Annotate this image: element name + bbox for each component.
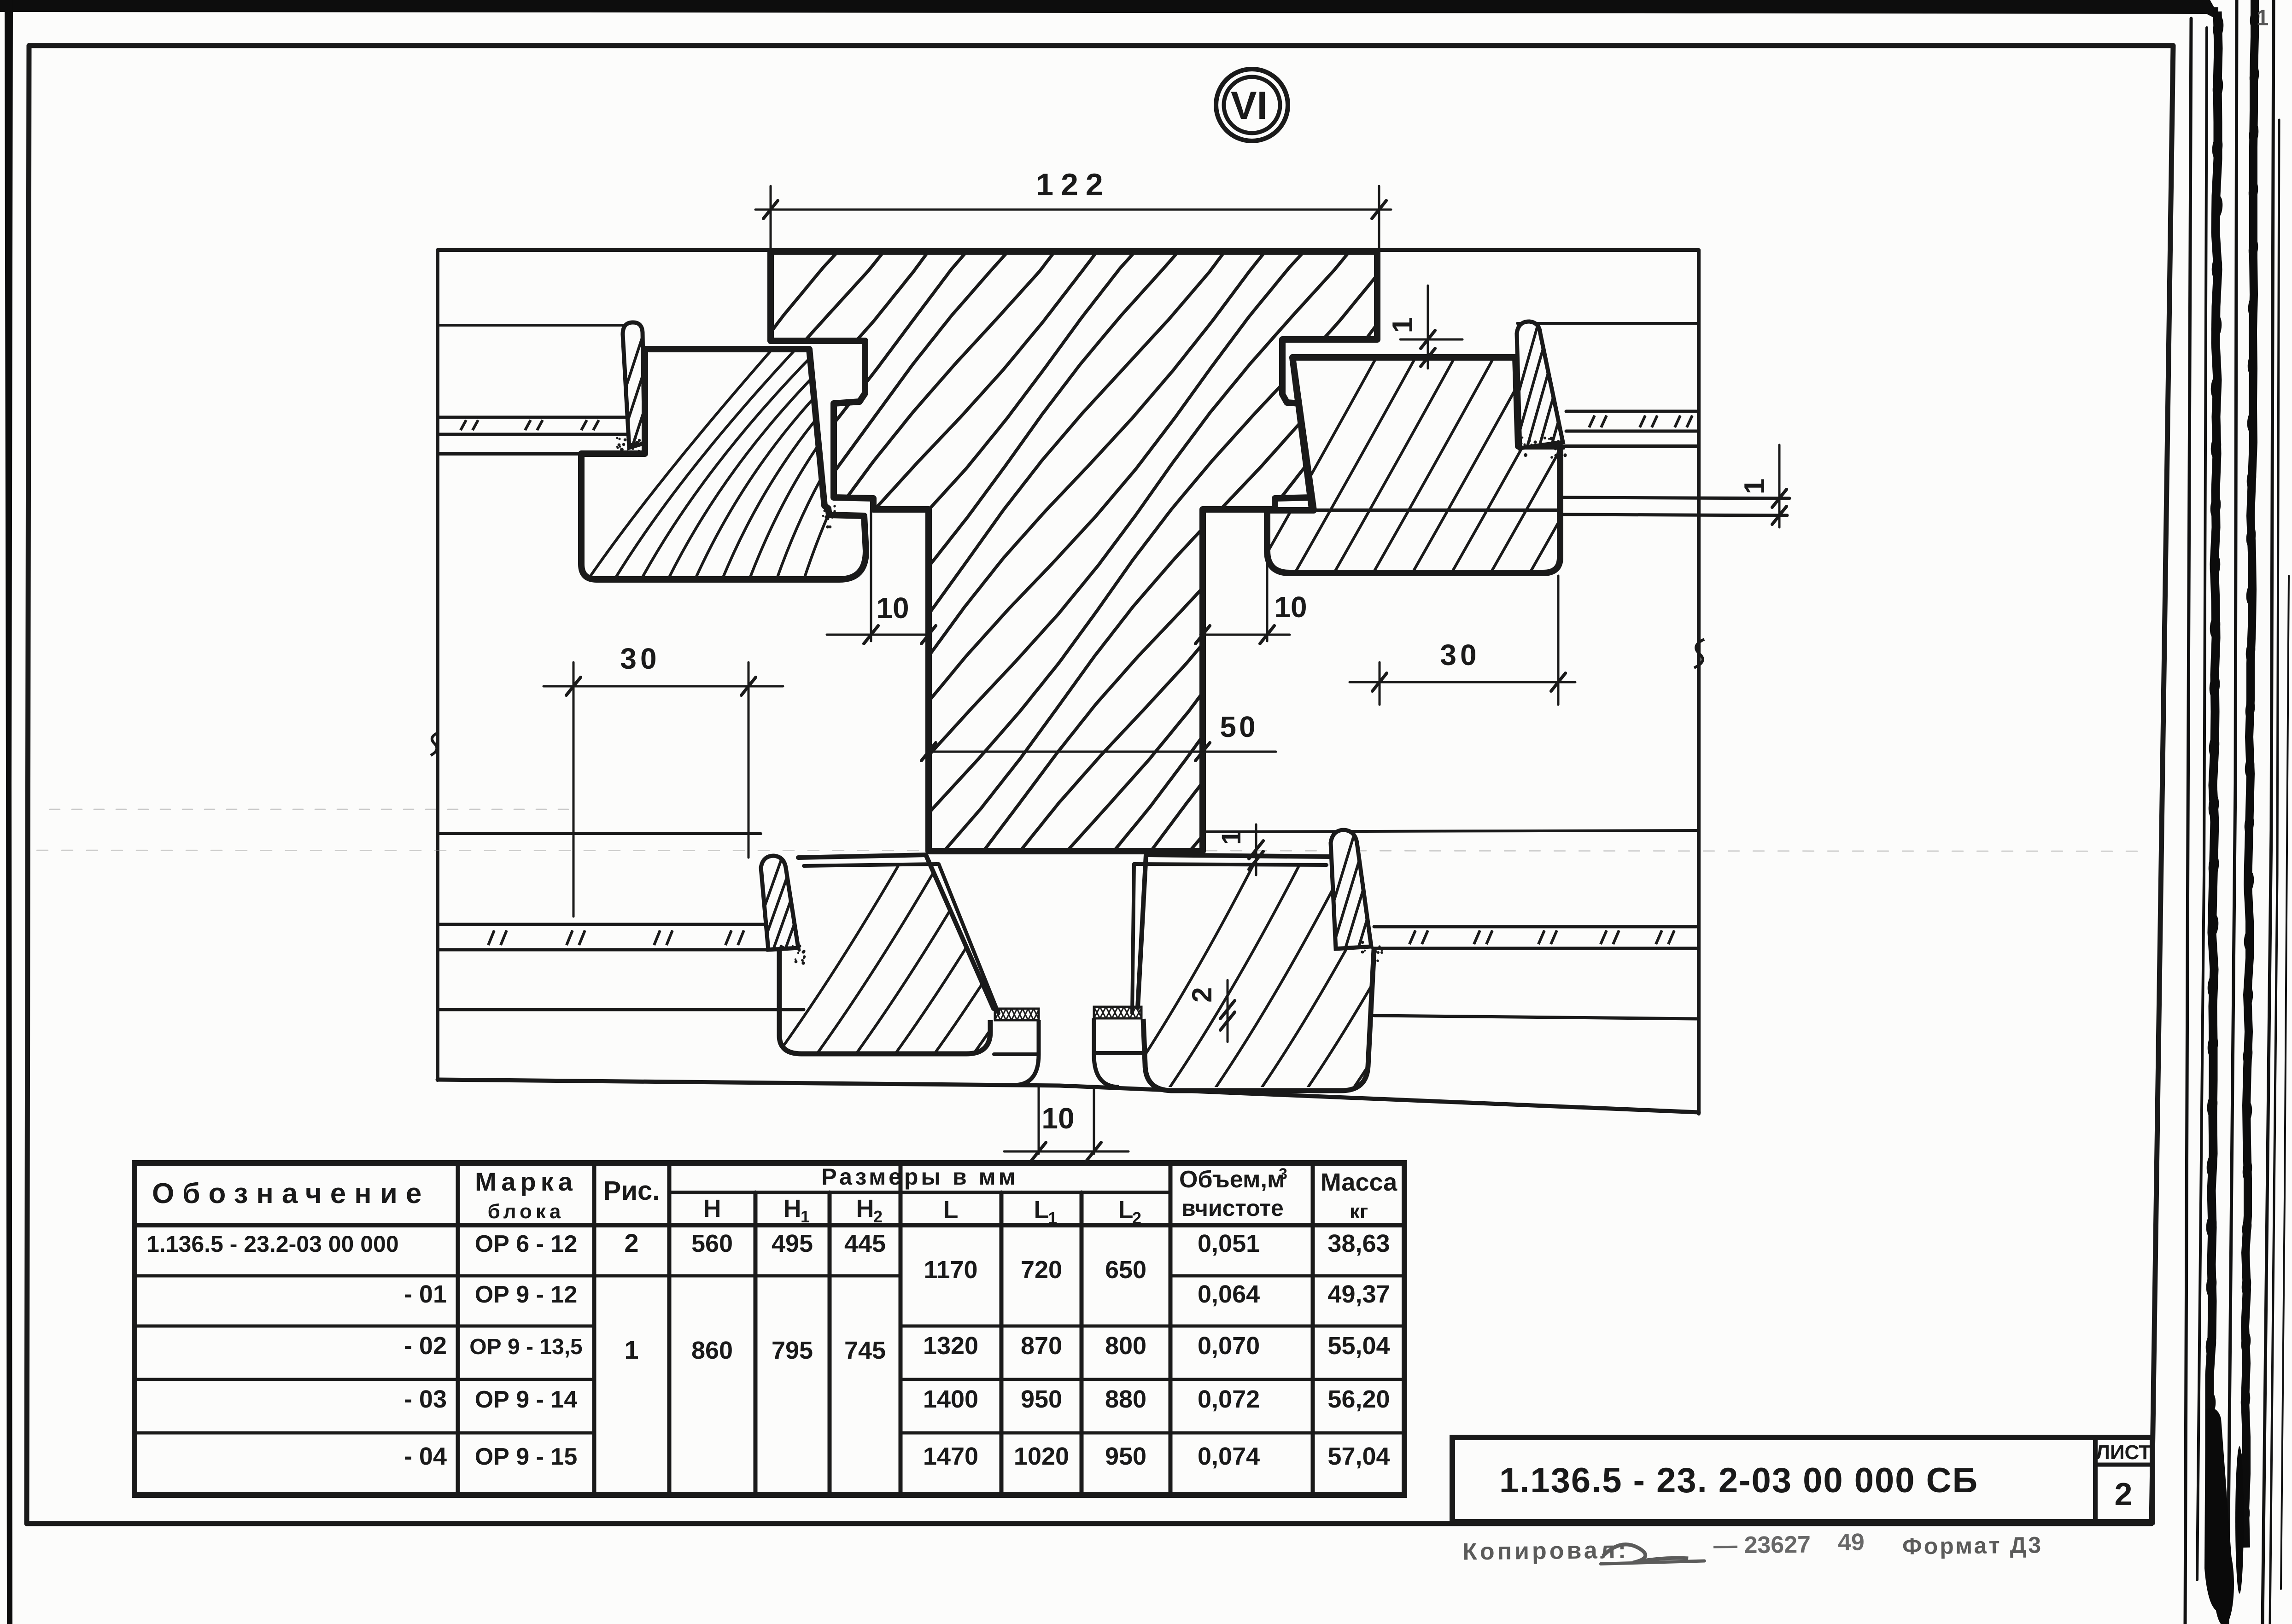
dimension 30 (left) (573, 662, 575, 917)
table column lines (456, 1163, 460, 1495)
putty dots upper-right (1549, 437, 1553, 440)
svg-text:1.136.5 - 23. 2-03 00 000 СБ: 1.136.5 - 23. 2-03 00 000 СБ (1499, 1461, 1978, 1500)
upper-right sash outline (1267, 357, 1560, 573)
dimension 10 (drainage slot) (1004, 1151, 1128, 1153)
drainage slot extension lines (1038, 1087, 1040, 1154)
dimension 1 (top gap right) (1427, 286, 1429, 368)
bottom box inner ledge right (1374, 1016, 1699, 1019)
svg-text:L: L (1118, 1196, 1134, 1224)
glazing rebate bottom line right (1564, 444, 1699, 448)
putty dots bottom-left bead (801, 961, 805, 964)
pocket seal strip right (crosshatch) (1094, 1007, 1142, 1018)
wall section boundary right (1697, 250, 1701, 1114)
svg-text:Рис.: Рис. (603, 1176, 660, 1206)
svg-text:Копировал:: Копировал: (1462, 1537, 1629, 1566)
svg-text:0,074: 0,074 (1198, 1443, 1260, 1470)
svg-text:30: 30 (1440, 638, 1480, 672)
svg-text:- 01: - 01 (404, 1280, 447, 1308)
bottom-right sash top edge double (1146, 855, 1331, 857)
faint scan line upper (50, 809, 571, 810)
svg-text:H: H (703, 1195, 721, 1222)
svg-text:1: 1 (1387, 317, 1419, 333)
table row lines (134, 1274, 900, 1278)
sash overlap edge line right (1270, 508, 1560, 512)
svg-text:10: 10 (1274, 590, 1307, 624)
svg-text:0,051: 0,051 (1198, 1230, 1260, 1257)
putty line under bead upper-right (1520, 447, 1564, 450)
svg-text:1: 1 (2257, 6, 2269, 30)
svg-text:Обозначение: Обозначение (152, 1178, 430, 1209)
svg-text:ЛИСТ: ЛИСТ (2096, 1441, 2151, 1464)
svg-text:1020: 1020 (1014, 1443, 1069, 1470)
bottom box rail top edge left (438, 832, 761, 835)
glazing bead bottom-left (761, 856, 798, 950)
glass pane upper-right (1566, 410, 1699, 413)
svg-text:кг: кг (1350, 1200, 1368, 1223)
wood grain hatch of central piece (304, 221, 1756, 903)
svg-text:1400: 1400 (923, 1385, 978, 1413)
svg-text:950: 950 (1105, 1443, 1146, 1470)
putty dots bottom-right bead (1379, 946, 1381, 948)
svg-text:0,072: 0,072 (1198, 1385, 1260, 1413)
svg-text:1: 1 (1048, 1209, 1057, 1227)
glazing rebate top line left (438, 324, 625, 327)
svg-text:50: 50 (1220, 710, 1258, 743)
glazing bead bottom-right (1331, 830, 1371, 949)
svg-text:880: 880 (1105, 1385, 1146, 1413)
svg-text:10: 10 (1041, 1102, 1074, 1135)
glazing bead hatch (603, 322, 712, 456)
svg-text:1170: 1170 (924, 1256, 977, 1284)
binding scan streaks right edge (2185, 0, 2289, 1624)
wall section boundary top (438, 248, 1699, 252)
dimension 50 (stem width) (929, 751, 1276, 753)
node VI detail label circle (1216, 69, 1288, 141)
svg-text:2: 2 (2115, 1476, 2133, 1512)
putty dots upper-left (624, 438, 627, 442)
binding bead chain thick left (2210, 12, 2218, 1485)
svg-text:- 02: - 02 (404, 1332, 447, 1360)
svg-text:720: 720 (1021, 1256, 1062, 1284)
svg-text:3: 3 (1279, 1165, 1287, 1183)
svg-text:650: 650 (1105, 1256, 1146, 1284)
table outer frame (134, 1163, 1404, 1495)
dimension 1 (right edge overlap) (1778, 445, 1781, 527)
svg-text:950: 950 (1021, 1385, 1062, 1413)
sash ledge lines to boundary right (1560, 497, 1789, 498)
svg-text:Объем,м: Объем,м (1179, 1166, 1285, 1193)
svg-text:- 04: - 04 (404, 1443, 447, 1470)
pocket seal strip left (crosshatch) (995, 1009, 1039, 1020)
svg-text:30: 30 (620, 642, 660, 675)
glazing rebate top line right (1517, 322, 1699, 325)
dimension 10 (right gap) (1266, 511, 1269, 641)
svg-text:870: 870 (1021, 1332, 1062, 1360)
svg-text:1: 1 (801, 1207, 810, 1226)
svg-text:L: L (943, 1196, 959, 1224)
binding bead chain thick right (2245, 0, 2255, 1548)
svg-text:495: 495 (772, 1230, 813, 1257)
svg-text:ОР 9 - 15: ОР 9 - 15 (475, 1443, 578, 1470)
glazing bead upper-right (1517, 321, 1563, 448)
binding dark blob bottom (2204, 1408, 2233, 1612)
title block frame (1452, 1437, 2152, 1522)
drainage slot walls (1013, 1020, 1039, 1085)
svg-text:Размеры в мм: Размеры в мм (821, 1164, 1018, 1190)
svg-text:860: 860 (691, 1337, 733, 1364)
svg-text:L: L (1034, 1196, 1049, 1224)
svg-text:2: 2 (873, 1207, 883, 1226)
svg-text:10: 10 (876, 591, 909, 625)
svg-text:ОР 9 - 13,5: ОР 9 - 13,5 (469, 1335, 582, 1359)
svg-text:56,20: 56,20 (1327, 1385, 1390, 1413)
bottom-right sash grain (1119, 866, 1483, 1094)
central mullion box piece outline (771, 251, 1377, 851)
bottom glass pane right (1374, 925, 1699, 929)
wall section boundary bottom (slanted scan) (438, 1080, 1699, 1112)
dimension 30 (right) (1379, 662, 1381, 705)
bottom-left sash body bottom (779, 950, 990, 1054)
svg-text:0,064: 0,064 (1198, 1280, 1260, 1308)
svg-text:122: 122 (1036, 167, 1110, 202)
bottom box rail top edge right (1202, 830, 1699, 832)
glazing rebate bottom line left (438, 452, 632, 456)
upper-left sash outline (581, 349, 866, 579)
svg-text:745: 745 (844, 1337, 886, 1364)
svg-text:ОР 9 - 12: ОР 9 - 12 (475, 1281, 578, 1308)
svg-text:VI: VI (1231, 84, 1268, 128)
svg-text:2: 2 (1132, 1209, 1141, 1227)
black scan edge left (5, 0, 13, 1624)
black scan edge top (0, 0, 2222, 22)
bottom pocket left wall double (926, 855, 994, 1009)
faint scan line lower (37, 850, 2137, 851)
svg-text:55,04: 55,04 (1327, 1332, 1390, 1360)
svg-text:вчистоте: вчистоте (1181, 1195, 1284, 1221)
svg-text:795: 795 (772, 1337, 813, 1364)
svg-text:H: H (856, 1195, 874, 1222)
bottom box inner ledge left (438, 1008, 804, 1011)
bottom pocket right wall double (1138, 855, 1146, 1008)
svg-text:— 23627: — 23627 (1713, 1531, 1811, 1559)
svg-text:445: 445 (844, 1230, 886, 1257)
break mark left boundary (431, 732, 439, 755)
break mark right boundary (1694, 639, 1704, 668)
glass pane upper-left (438, 416, 627, 419)
bottom-left sash top edge double (798, 855, 926, 858)
svg-text:ОР 6 - 12: ОР 6 - 12 (475, 1231, 578, 1257)
bottom glass pane left (438, 923, 779, 926)
svg-text:49,37: 49,37 (1327, 1280, 1390, 1308)
table header lines (669, 1191, 1170, 1194)
svg-text:1: 1 (1216, 830, 1246, 845)
dimension 1 (stem to box gap) (1255, 824, 1257, 875)
svg-text:Масса: Масса (1321, 1168, 1397, 1196)
copied-by handwriting (1462, 1527, 2043, 1565)
pocket bottom ledge left (994, 1052, 1038, 1056)
pocket bottom ledge right (1094, 1051, 1142, 1055)
dimension 122 (770, 186, 772, 258)
svg-text:2: 2 (624, 1228, 638, 1257)
dimension 10 (left gap) (870, 510, 872, 641)
svg-text:блока: блока (488, 1200, 565, 1223)
dimension 2 (seal thickness) (1227, 980, 1229, 1042)
svg-text:49: 49 (1838, 1529, 1865, 1556)
bottom-right sash body (1143, 950, 1374, 1091)
svg-text:1.136.5 - 23.2-03 00 000: 1.136.5 - 23.2-03 00 000 (146, 1231, 399, 1257)
svg-text:1: 1 (1739, 479, 1771, 494)
svg-text:560: 560 (691, 1230, 733, 1257)
svg-text:0,070: 0,070 (1198, 1332, 1260, 1360)
bottom-left sash grain (774, 866, 1094, 1059)
svg-text:57,04: 57,04 (1327, 1443, 1390, 1470)
svg-text:Формат Д3: Формат Д3 (1902, 1532, 2043, 1559)
svg-text:800: 800 (1105, 1332, 1146, 1360)
svg-text:H: H (783, 1195, 801, 1222)
svg-text:1320: 1320 (923, 1332, 978, 1360)
upper-left sash wood grain (822, 515, 824, 517)
svg-text:38,63: 38,63 (1327, 1230, 1390, 1257)
svg-text:1: 1 (624, 1335, 638, 1364)
svg-text:Марка: Марка (475, 1167, 577, 1196)
glazing bead upper-left (623, 322, 644, 448)
svg-text:2: 2 (1187, 987, 1217, 1002)
svg-text:- 03: - 03 (404, 1385, 447, 1413)
svg-text:1470: 1470 (923, 1443, 978, 1470)
upper-right sash wood grain (1244, 322, 1709, 594)
svg-text:ОР 9 - 14: ОР 9 - 14 (475, 1386, 578, 1413)
wall section boundary left (436, 250, 439, 1080)
